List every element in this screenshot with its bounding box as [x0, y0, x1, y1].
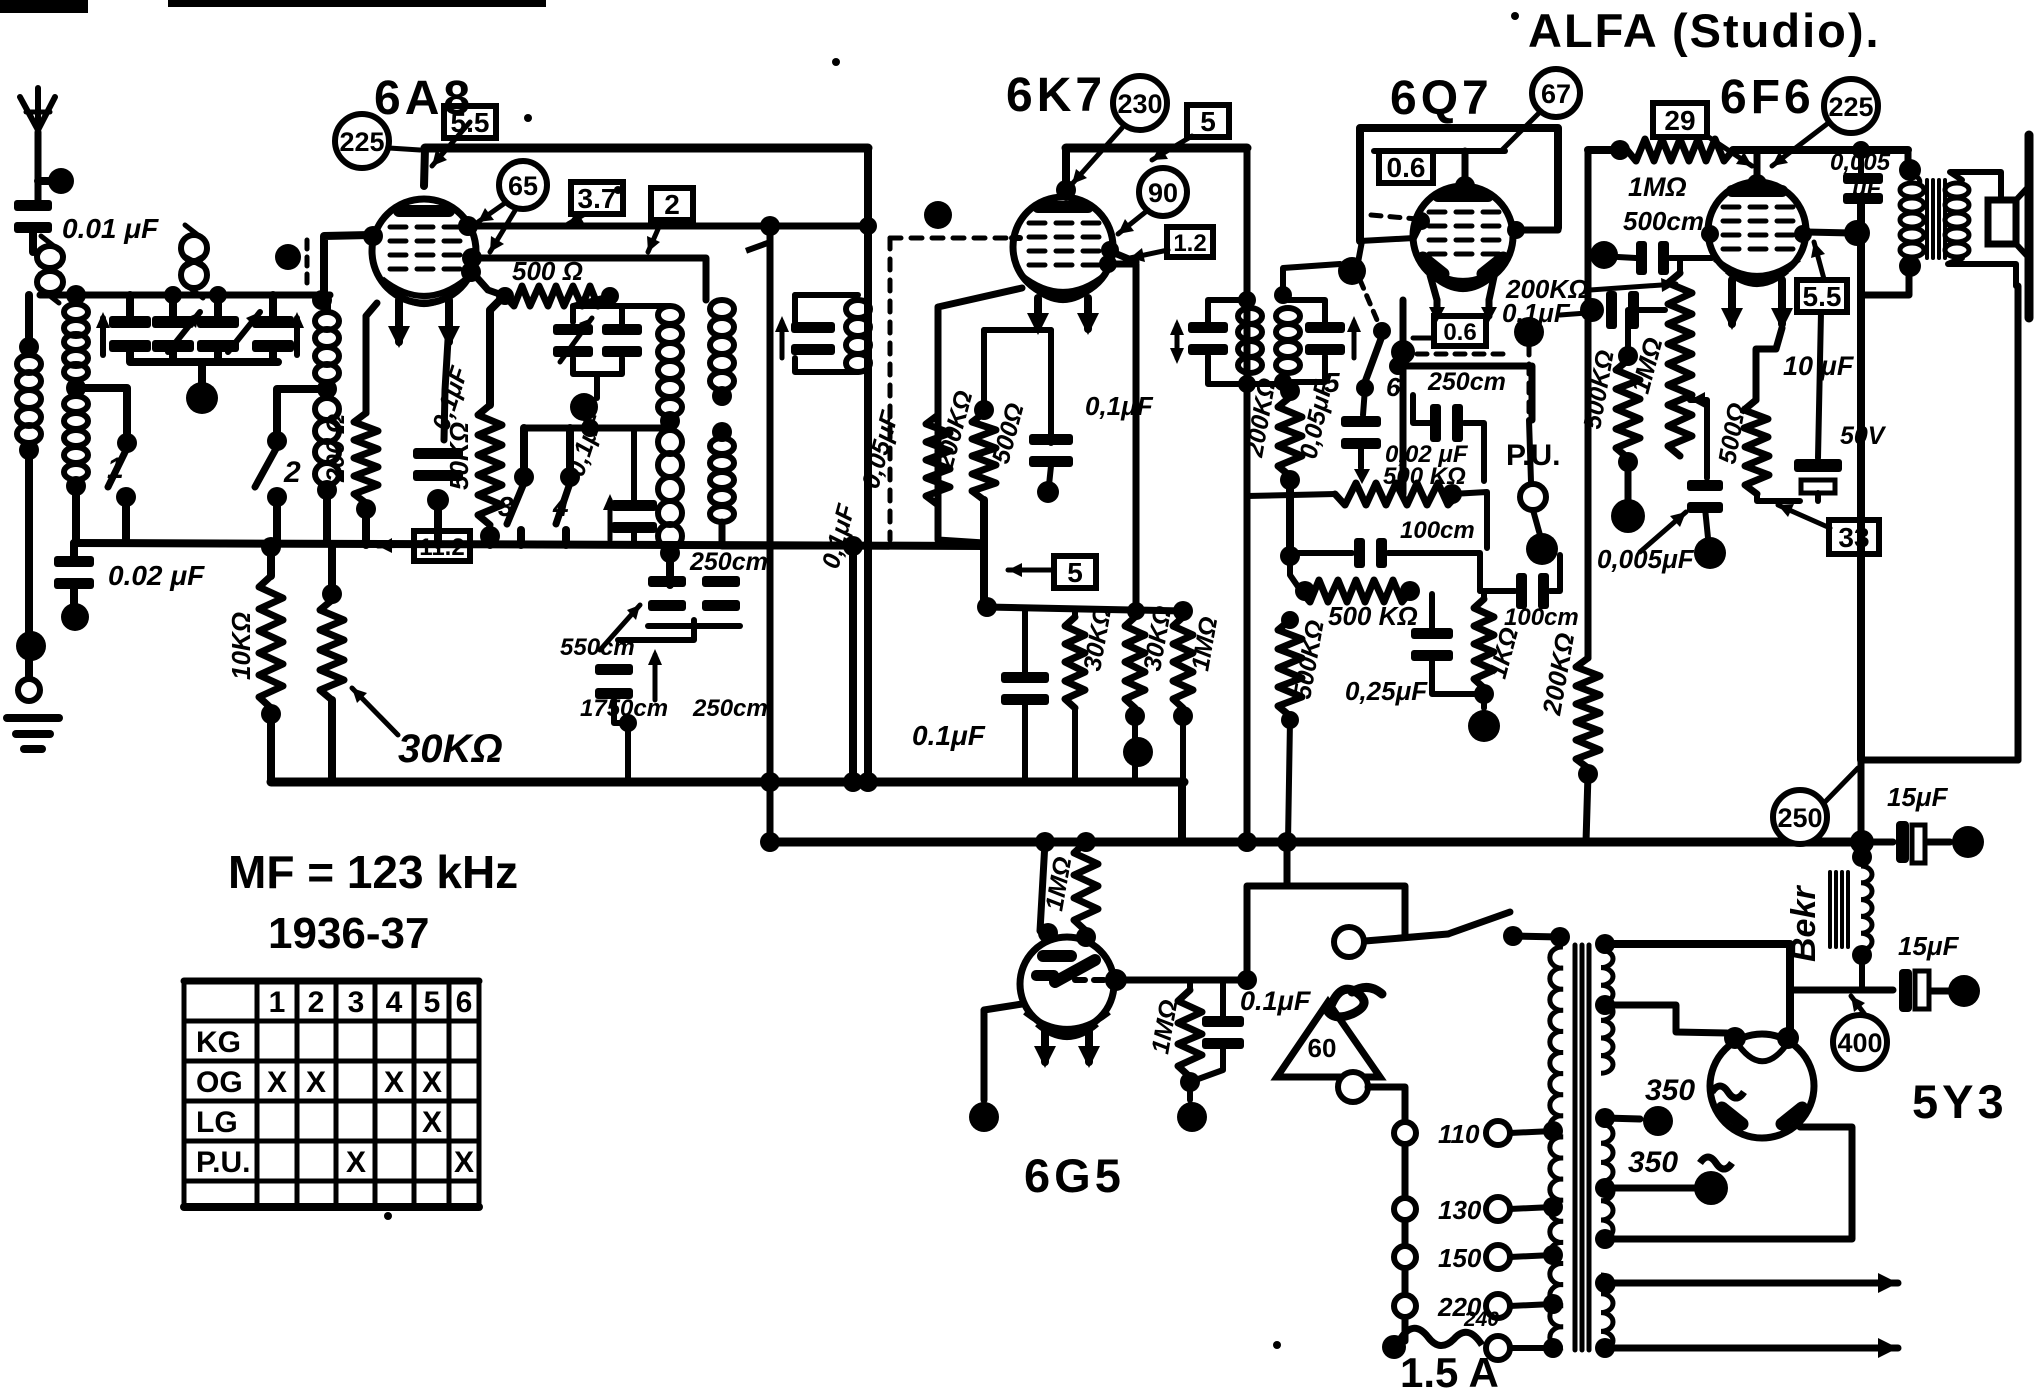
- node gnd 1K: [1468, 710, 1500, 742]
- node OT pri top: [1899, 159, 1921, 181]
- terminal mains b: [1338, 1072, 1368, 1102]
- label 1M 6G5 top: [1040, 855, 1077, 913]
- wire gang top stub d: [269, 295, 277, 316]
- label PU: [1506, 439, 1560, 472]
- inductor OT primary: [1900, 174, 1924, 257]
- node 200K rail bot: [1578, 764, 1598, 784]
- inductor heater: [1601, 1275, 1613, 1350]
- node busB end: [1850, 830, 1874, 854]
- label 350 b: [1628, 1146, 1678, 1179]
- svg-text:1.2: 1.2: [1173, 230, 1206, 257]
- node 1M top: [1173, 601, 1193, 621]
- resistor 30K b: [1125, 617, 1145, 708]
- node cap bottom: [427, 489, 449, 511]
- terminal mid tap: [1643, 1106, 1673, 1136]
- svg-text:350: 350: [1628, 1146, 1678, 1179]
- table X LG5: [422, 1106, 442, 1139]
- contact switch1 bottom: [116, 487, 136, 507]
- leader 0.6b: [1413, 336, 1434, 341]
- label circle 400: [1833, 1015, 1887, 1069]
- node IF1 sec bottom: [660, 543, 680, 563]
- wire sw5 down: [1363, 388, 1365, 415]
- wire 500R up: [981, 330, 987, 410]
- capacitor tuning gang section 4: [252, 316, 294, 352]
- capacitor IF2 pri trim: [1188, 322, 1228, 355]
- label 100cm b: [1504, 604, 1579, 631]
- capacitor 250cm det: [1430, 404, 1463, 442]
- node 01f dot: [1580, 298, 1604, 322]
- svg-text:3: 3: [348, 986, 365, 1019]
- wire gang bottom stub c: [214, 352, 222, 362]
- box 5.5 b: [1797, 280, 1847, 312]
- label circle 225: [335, 114, 389, 168]
- tube 6G5: [1020, 937, 1114, 1037]
- wire 6K7 plate: [1112, 252, 1136, 262]
- node 5Y3 anode a: [1777, 1027, 1799, 1049]
- node primary top: [1550, 927, 1570, 947]
- leader 225b: [1772, 124, 1827, 166]
- leader tone: [1640, 512, 1686, 552]
- inductor IF1 sec lower: [658, 430, 682, 548]
- label 200K avc: [1240, 376, 1282, 460]
- terminal PU bottom: [1526, 533, 1558, 565]
- sine a: [1712, 1086, 1744, 1098]
- wire frame down: [1357, 241, 1362, 268]
- label circle 230: [1113, 76, 1167, 130]
- wire 100b line: [1480, 588, 1515, 594]
- wire padder down: [614, 700, 628, 782]
- svg-text:X: X: [346, 1146, 366, 1179]
- wire dashed to sw5: [1360, 280, 1377, 320]
- capacitor 0.1uF 6K7 cath: [1029, 434, 1073, 467]
- node pu top dot: [1514, 317, 1544, 347]
- wire 200R down: [362, 509, 370, 545]
- leader 250: [1824, 768, 1858, 803]
- contact switch4 top: [560, 467, 580, 487]
- wire sec bottom: [666, 553, 674, 585]
- tube 6K7: [1013, 197, 1113, 300]
- svg-text:15μF: 15μF: [1898, 931, 1960, 961]
- terminal 220: [1486, 1294, 1510, 1318]
- capacitor 500cm: [1636, 241, 1669, 275]
- trimmer arrow a: [560, 318, 592, 362]
- contact switch2 bottom: [267, 487, 287, 507]
- node IF2 sec top: [1274, 286, 1292, 304]
- wire screen cap stem: [1022, 609, 1028, 677]
- box 11.2: [414, 531, 470, 561]
- wire OT sec top: [1950, 172, 2001, 200]
- wire 0.02 stem: [70, 543, 78, 561]
- capacitor 10uF: [1794, 459, 1842, 493]
- wire 6A8 topcap: [424, 148, 425, 186]
- node 1K bottom: [1474, 684, 1494, 704]
- wire tap 240: [1510, 1345, 1553, 1351]
- svg-text:350: 350: [1645, 1074, 1695, 1107]
- wire avcf link: [1290, 556, 1301, 591]
- node gnd tone: [1694, 537, 1726, 569]
- svg-text:225: 225: [1828, 92, 1873, 122]
- svg-text:30KΩ: 30KΩ: [398, 727, 503, 771]
- triangle 60: [1277, 1002, 1380, 1077]
- wire x868 vertical: [864, 148, 872, 782]
- box 5: [1187, 105, 1229, 137]
- wire 6G5 target: [1040, 842, 1045, 931]
- svg-text:OG: OG: [196, 1066, 243, 1099]
- arrow pad: [603, 494, 617, 540]
- label 0.01uF: [62, 213, 159, 244]
- terminal 150: [1486, 1245, 1510, 1269]
- svg-text:5.5: 5.5: [1803, 281, 1842, 312]
- label 130: [1438, 1195, 1482, 1225]
- svg-text:X: X: [267, 1066, 287, 1099]
- svg-text:2: 2: [283, 456, 301, 489]
- box 5.5: [444, 106, 496, 138]
- table grid: [184, 981, 479, 1207]
- wire OT jog: [1861, 270, 1909, 295]
- wire antenna stub: [38, 177, 52, 185]
- terminal 240: [1486, 1336, 1510, 1360]
- wire 200K rail down: [1586, 774, 1588, 842]
- inductor IF1 pri upper: [710, 300, 734, 390]
- node busB 1247: [1237, 832, 1257, 852]
- label 6K7: [1006, 69, 1106, 122]
- contact switch1 top: [117, 433, 137, 453]
- node 500R top: [974, 400, 994, 420]
- node pot right: [1442, 484, 1462, 504]
- tap selector 110: [1394, 1122, 1416, 1144]
- label 30K: [398, 727, 503, 771]
- label 1K: [1484, 625, 1524, 682]
- node tap 220: [1543, 1294, 1563, 1314]
- wire 500R6F6 bot: [1757, 494, 1800, 501]
- box 3.7: [571, 182, 623, 214]
- node 770 junction: [760, 216, 780, 236]
- contact sw5: [1373, 322, 1391, 340]
- node 5Y3 anode b: [1724, 1027, 1746, 1049]
- wire speaker drop: [2015, 286, 2022, 760]
- node gang b: [164, 286, 182, 304]
- leader 90: [1118, 210, 1148, 234]
- wire pu solid: [1529, 420, 1531, 482]
- inductor L3 lower: [315, 398, 339, 485]
- wire 6K7 topcap: [1062, 148, 1070, 197]
- terminal 110: [1486, 1121, 1510, 1145]
- label title: [1528, 4, 1881, 57]
- label switch 1: [107, 452, 124, 485]
- wire gang top stub c: [214, 295, 222, 316]
- node 6G5 pin b: [1076, 927, 1096, 947]
- ground symbol: [7, 718, 59, 749]
- capacitor 100cm b: [1516, 573, 1549, 609]
- tube 6Q7: [1413, 186, 1513, 289]
- wire 500Kf up: [1628, 310, 1640, 356]
- node L3 tap: [317, 379, 337, 399]
- switch mains blade: [1448, 912, 1510, 934]
- wire 30K a down: [1072, 708, 1078, 782]
- wire 6G5 gnd: [1187, 1082, 1193, 1100]
- capacitor tuning gang section 1: [109, 316, 151, 352]
- node L2 top: [66, 285, 86, 305]
- terminal 6G5 left: [969, 1102, 999, 1132]
- wire cap 6K7 bot: [1049, 466, 1051, 485]
- core field coil: [1830, 872, 1848, 947]
- wire 6F6 cath: [1756, 328, 1782, 400]
- table row KG: [196, 1026, 241, 1059]
- node heater a: [1595, 1273, 1615, 1293]
- label 150: [1438, 1243, 1482, 1273]
- svg-text:0.1μF: 0.1μF: [912, 720, 986, 751]
- AC sine symbol: [1326, 987, 1382, 1016]
- label 0.1uF f: [1502, 298, 1571, 328]
- svg-text:0.6: 0.6: [1387, 152, 1426, 183]
- wire tank top bar: [573, 303, 670, 309]
- speck b: [384, 12, 1519, 1220]
- label 500K det: [1383, 463, 1466, 490]
- wire tap 110: [1510, 1131, 1553, 1133]
- svg-text:500 Ω: 500 Ω: [512, 256, 583, 286]
- wire rail 1588: [1585, 150, 1592, 658]
- wire diode pin right: [1489, 272, 1495, 300]
- resistor 500K pot: [1335, 483, 1458, 505]
- svg-text:P.U.: P.U.: [196, 1146, 250, 1179]
- wire 025 stem: [1429, 594, 1435, 634]
- wire grid dashes: [1371, 215, 1417, 219]
- node tank bottom: [570, 393, 598, 421]
- svg-text:230: 230: [1117, 89, 1162, 119]
- resistor 30K a: [1065, 617, 1085, 708]
- leader 11.2: [378, 538, 416, 553]
- wire dashed vane: [305, 240, 310, 288]
- svg-text:550cm: 550cm: [560, 634, 635, 661]
- wire det cap down: [1358, 445, 1364, 468]
- wire CT: [1605, 1185, 1694, 1192]
- resistor 30K osc: [320, 600, 344, 700]
- svg-text:110: 110: [1438, 1119, 1480, 1149]
- wire bus 3 left: [1588, 146, 1625, 154]
- wire L3 bottom down: [323, 490, 331, 543]
- node IF2 sec bot: [1274, 373, 1292, 391]
- table X OG1: [267, 1066, 287, 1099]
- node avcf right: [1400, 581, 1420, 601]
- gang frame right arrow: [290, 312, 304, 355]
- wire top bus 1: [425, 144, 868, 153]
- label 50V: [1840, 422, 1887, 450]
- wire vol top: [1677, 258, 1683, 273]
- wire bus stub 1287: [1284, 842, 1291, 886]
- pins 6K7: [1027, 298, 1099, 335]
- svg-text:15μF: 15μF: [1887, 782, 1949, 812]
- wire 30K down: [328, 700, 336, 782]
- capacitor 0.02uF: [54, 556, 94, 589]
- tap selector 130: [1394, 1198, 1416, 1220]
- label switch 3: [498, 491, 514, 522]
- wire 6K7 cathode: [938, 288, 1022, 543]
- node 6F6 grid: [1701, 225, 1719, 243]
- svg-text:130: 130: [1438, 1195, 1482, 1225]
- node tap 130: [1543, 1197, 1563, 1217]
- table X P.U.3: [346, 1146, 366, 1179]
- svg-text:6F6: 6F6: [1720, 71, 1815, 124]
- wire gang bottom stub d: [269, 352, 277, 362]
- node 1M bottom: [1173, 706, 1193, 726]
- wire pot left: [1247, 494, 1335, 496]
- node bus 0.005: [1852, 141, 1870, 159]
- node 200R bottom: [356, 499, 376, 519]
- tube 6F6: [1708, 182, 1806, 284]
- capacitor 0.1uF 6G5: [1202, 1016, 1244, 1049]
- svg-text:X: X: [384, 1066, 404, 1099]
- label 15uF b: [1898, 931, 1960, 961]
- resistor 200K screen bleed: [926, 415, 950, 505]
- svg-text:4: 4: [386, 986, 403, 1019]
- wire plate drop: [1857, 204, 1865, 760]
- node avcf left: [1295, 581, 1315, 601]
- node osc grid: [312, 290, 332, 310]
- wire frame inner: [1374, 148, 1505, 154]
- svg-text:29: 29: [1664, 105, 1695, 136]
- wire 500cm left: [1588, 255, 1604, 257]
- pins 6G5: [1034, 1030, 1100, 1068]
- table X P.U.6: [454, 1146, 474, 1179]
- node 984 row: [977, 597, 997, 617]
- wire avc line: [524, 425, 670, 432]
- wire gang top stub a: [126, 295, 134, 316]
- tap selector 150: [1394, 1246, 1416, 1268]
- padder cap a2: [702, 576, 740, 611]
- svg-text:0.01 μF: 0.01 μF: [62, 213, 159, 244]
- svg-text:2: 2: [664, 189, 680, 220]
- label 240: [1463, 1308, 1499, 1331]
- wire 6G5 left: [984, 1004, 1022, 1100]
- label 500R: [512, 256, 583, 286]
- svg-text:500cm: 500cm: [1623, 206, 1704, 236]
- label 0.1uF k: [817, 501, 861, 572]
- node busA 853: [843, 772, 863, 792]
- wire dashed avc v: [888, 238, 893, 540]
- label 200K rail: [1536, 631, 1580, 718]
- wire diode down2: [1400, 352, 1407, 494]
- inductor L2 lower: [64, 396, 88, 480]
- label 500R 6K7: [987, 400, 1030, 466]
- wire grid feed: [324, 235, 370, 298]
- inductor HV top: [1601, 950, 1613, 1073]
- wire mains to tr: [1513, 936, 1560, 937]
- resistor 200K avc: [1278, 397, 1302, 476]
- svg-text:P.U.: P.U.: [1506, 439, 1560, 472]
- svg-text:240: 240: [1463, 1308, 1499, 1331]
- wire 6Q7 frame: [1360, 128, 1558, 241]
- wire osc tank cap stub: [792, 295, 798, 322]
- label 500cm: [1623, 206, 1704, 236]
- capacitor 0.005uF tone: [1687, 480, 1723, 513]
- wire input bus: [40, 292, 330, 299]
- resistor 1K: [1474, 599, 1494, 688]
- arrowhead pot wiper: [1354, 469, 1370, 484]
- svg-text:1: 1: [107, 452, 124, 485]
- node IF2 pri bot: [1238, 375, 1256, 393]
- resistor 1M bus: [1627, 139, 1733, 161]
- label 250cm a: [689, 548, 768, 576]
- wire return to bus: [1858, 760, 1865, 842]
- wire switch4 down: [562, 530, 570, 545]
- box 29: [1653, 103, 1707, 137]
- inductor IF2 sec: [1276, 308, 1300, 373]
- label 1750cm: [580, 695, 668, 722]
- node 500R left: [496, 287, 514, 305]
- table header 5: [424, 986, 441, 1019]
- label 50K: [444, 422, 474, 490]
- box 5b: [1054, 556, 1096, 588]
- twisted pair image suppressor: [181, 225, 207, 298]
- svg-text:1.5 A: 1.5 A: [1400, 1349, 1499, 1393]
- table header 6: [456, 986, 473, 1019]
- svg-text:0.6: 0.6: [1443, 319, 1476, 346]
- svg-text:50KΩ: 50KΩ: [444, 422, 474, 490]
- capacitor 15uF b: [1899, 969, 1929, 1012]
- node antenna junction: [48, 168, 74, 194]
- table row LG: [196, 1106, 238, 1139]
- inductor IF tank coil: [846, 300, 870, 372]
- node 6K7 screen: [1099, 255, 1117, 273]
- label 350 a: [1645, 1074, 1695, 1107]
- wire 6K7 screen: [1108, 264, 1136, 611]
- wire grid up: [1247, 886, 1405, 980]
- leader 2: [647, 220, 662, 252]
- switch 3 blade: [507, 483, 524, 524]
- wire top bus 2: [1066, 144, 1247, 153]
- resistor 50K: [478, 405, 502, 525]
- leader 230: [1072, 128, 1122, 184]
- label 550cm: [560, 634, 635, 661]
- capacitor 0.25uF: [1411, 628, 1453, 661]
- label 6Q7: [1390, 72, 1493, 125]
- wire x1247 vertical: [1244, 151, 1251, 842]
- wire bus B: [768, 838, 1862, 847]
- wire 10K stub: [267, 547, 275, 576]
- wire padder bus: [648, 623, 740, 629]
- node busA 770: [760, 772, 780, 792]
- wire pri bottom: [722, 522, 938, 546]
- inductor IF1 pri lower: [710, 438, 734, 522]
- wire 6F6 topcap: [1754, 150, 1761, 186]
- svg-text:1936-37: 1936-37: [268, 909, 429, 958]
- wire tap 130: [1510, 1207, 1553, 1209]
- wire grid solid: [1012, 235, 1020, 241]
- svg-text:X: X: [454, 1146, 474, 1179]
- inductor antenna coil L1: [17, 355, 41, 443]
- leader 33: [1778, 504, 1830, 528]
- twisted pair antenna: [37, 236, 63, 303]
- wire tap 220: [1510, 1304, 1553, 1306]
- wire HV bot: [1605, 1127, 1852, 1239]
- trimmer b: [602, 324, 642, 357]
- label 10K: [226, 612, 256, 680]
- arrow if2 trim b: [1347, 316, 1361, 358]
- wire 30K up: [328, 545, 336, 594]
- wire tank link: [795, 292, 858, 298]
- node IF1 pri mid b: [712, 422, 732, 442]
- box 2: [651, 188, 693, 220]
- padder cap b: [595, 664, 633, 699]
- svg-text:250cm: 250cm: [689, 548, 768, 576]
- table header 1: [269, 986, 286, 1019]
- wire heater b: [1605, 1338, 1898, 1358]
- inductor OT secondary: [1945, 183, 1969, 257]
- label 500K avc filt: [1328, 601, 1418, 631]
- label 0.02uF: [108, 560, 205, 591]
- tap selector 220: [1394, 1295, 1416, 1317]
- node 10K top: [261, 537, 281, 557]
